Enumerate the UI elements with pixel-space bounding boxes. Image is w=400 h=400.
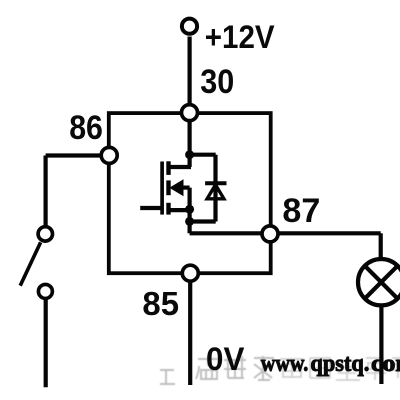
- transistor Q1 gate plate: [160, 162, 164, 215]
- wire switch bottom: [44, 299, 48, 387]
- wire arrow stub: [181, 186, 190, 190]
- switch S1 top contact: [38, 227, 52, 241]
- svg-text:+12V: +12V: [205, 19, 275, 55]
- svg-text:0V: 0V: [206, 341, 245, 377]
- wire source vertical: [188, 188, 192, 234]
- diode D1 triangle: [207, 185, 224, 199]
- watermark gray CJK row left: [160, 356, 274, 384]
- junction dot drain/diode: [185, 150, 194, 159]
- svg-text:www.qpstq.com: www.qpstq.com: [261, 350, 400, 377]
- transistor Q1 body arrow: [169, 179, 183, 196]
- svg-text:30: 30: [200, 63, 234, 101]
- wire diode vertical: [213, 155, 217, 222]
- relay box: [109, 113, 271, 273]
- wire source stub: [169, 208, 190, 212]
- wire +12V to node 30: [188, 37, 192, 113]
- junction dot source stub: [185, 205, 194, 214]
- node 87: [262, 226, 278, 242]
- junction dot diode bottom: [185, 217, 194, 226]
- switch S1 lever: [20, 242, 40, 285]
- wire diode branch top: [190, 153, 216, 157]
- terminal +12V: [182, 19, 197, 34]
- wire to node 87: [190, 231, 381, 235]
- transistor Q1 channel segment top: [166, 161, 170, 175]
- node 86: [101, 147, 117, 163]
- wire drain vertical: [188, 113, 192, 167]
- wire lamp drop: [379, 233, 383, 259]
- node 85: [182, 265, 198, 281]
- diode D1 cathode bar: [205, 181, 226, 185]
- wire node 86 horizontal: [46, 153, 101, 157]
- switch S1 bottom contact: [38, 284, 52, 298]
- watermark gray CJK row right: [280, 356, 400, 380]
- svg-text:87: 87: [282, 192, 320, 230]
- wire gate lead: [140, 206, 162, 210]
- transistor Q1 channel segment middle: [166, 180, 170, 195]
- wire switch vertical: [43, 156, 47, 226]
- wire lamp bottom: [379, 305, 383, 384]
- wire drain stub: [169, 165, 192, 169]
- svg-text:85: 85: [142, 286, 179, 323]
- svg-text:86: 86: [69, 109, 103, 147]
- node 30: [182, 105, 198, 121]
- lamp L1: [358, 259, 400, 305]
- transistor Q1 channel segment bottom: [166, 203, 170, 215]
- wire node 85 down: [188, 282, 192, 386]
- wire diode branch bottom: [190, 219, 216, 223]
